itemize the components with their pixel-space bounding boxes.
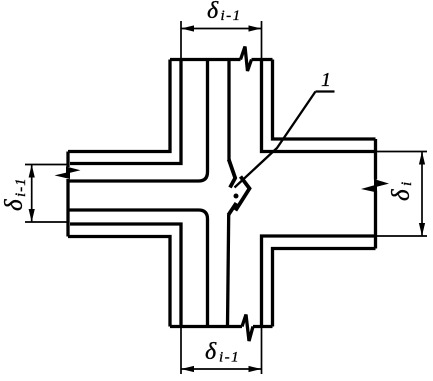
bottom dimension line [181, 368, 262, 370]
right dimension arrowhead bottom [419, 223, 425, 236]
top dimension label delta i-1 [207, 0, 242, 24]
leader line diagonal segment [235, 92, 316, 188]
svg-text:δ: δ [205, 339, 217, 365]
right panel end line (upper segment) [374, 139, 377, 180]
svg-text:δ: δ [388, 189, 415, 201]
left panel end line (upper segment) [66, 152, 69, 168]
joint chevron mark [236, 177, 250, 211]
svg-text:δ: δ [1, 199, 28, 211]
left dimension arrowhead bottom [29, 209, 35, 222]
svg-text:i-1: i-1 [219, 350, 240, 366]
top dimension extension line right [261, 21, 263, 60]
top panel end line (left segment) [170, 58, 241, 61]
top dimension extension line left [180, 21, 182, 60]
right dimension arrowhead top [419, 152, 425, 165]
joint channel contour top-left (rounded corner) [68, 60, 208, 182]
inner contour top-right quadrant [262, 60, 376, 152]
break symbol on bottom end line [242, 315, 253, 342]
leader line horizontal segment [316, 90, 335, 92]
left dimension extension line top [25, 164, 68, 166]
top dimension line [181, 28, 262, 30]
break symbol on left end line [66, 167, 81, 174]
svg-text:i-1: i-1 [13, 177, 29, 197]
top dimension arrowhead right [249, 25, 262, 31]
left panel end line (lower segment) [66, 179, 69, 237]
right dimension label delta i (rotated) [388, 182, 415, 201]
center vertical seam lower segment [228, 215, 229, 327]
lower seam break zigzag [228, 203, 236, 215]
svg-text:δ: δ [207, 0, 219, 24]
top dimension arrowhead left [181, 25, 194, 31]
bottom dimension label delta i-1 [205, 339, 240, 366]
svg-text:i: i [399, 182, 415, 186]
break symbol on right end line [374, 179, 389, 188]
right dimension extension line top [376, 151, 428, 153]
second contour top-left quadrant [70, 60, 181, 164]
break symbol on top end line [241, 47, 252, 72]
right dimension line [421, 152, 423, 237]
bottom dimension extension line right [261, 327, 263, 375]
right dimension extension line bottom [376, 235, 428, 237]
joint dot [234, 194, 239, 199]
outer contour bottom-left quadrant [68, 237, 170, 327]
svg-text:1: 1 [321, 69, 331, 91]
bottom panel end line (left segment) [170, 325, 242, 328]
left dimension extension line bottom [25, 221, 68, 223]
second contour bottom-left quadrant [70, 224, 181, 327]
center vertical seam upper segment [227, 60, 230, 162]
bottom dimension extension line left [180, 327, 182, 375]
upper seam break zigzag [229, 160, 235, 188]
bottom dimension arrowhead left [181, 366, 194, 372]
outer contour bottom-right quadrant [273, 249, 376, 327]
left dimension arrowhead top [29, 165, 35, 178]
inner contour bottom-right quadrant [262, 236, 376, 327]
outer contour top-left quadrant [68, 60, 170, 152]
svg-text:i-1: i-1 [221, 8, 242, 24]
bottom dimension arrowhead right [249, 366, 262, 372]
left dimension label delta i-1 (rotated) [1, 177, 29, 211]
bottom panel end line (right segment) [253, 325, 273, 328]
top panel end line (right segment) [252, 58, 273, 61]
right panel end line (lower segment) [374, 191, 377, 249]
outer contour top-right quadrant [273, 60, 376, 140]
left dimension line [31, 165, 33, 223]
joint channel contour bottom-left (rounded corner) [68, 210, 208, 327]
